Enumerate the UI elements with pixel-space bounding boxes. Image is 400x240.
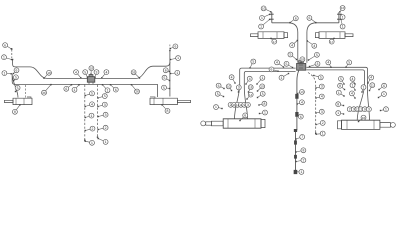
svg-text:2: 2 <box>105 126 107 130</box>
svg-text:1: 1 <box>352 83 354 87</box>
svg-text:6: 6 <box>218 84 220 88</box>
svg-text:6: 6 <box>16 69 18 73</box>
svg-text:18: 18 <box>249 85 253 89</box>
svg-text:4: 4 <box>276 61 278 65</box>
svg-text:5: 5 <box>84 70 86 74</box>
svg-text:6: 6 <box>115 88 117 92</box>
svg-text:14: 14 <box>249 93 253 97</box>
svg-text:5: 5 <box>340 77 342 81</box>
svg-text:8: 8 <box>337 102 339 106</box>
svg-text:7: 7 <box>301 135 303 139</box>
svg-text:1: 1 <box>105 140 107 144</box>
svg-text:4: 4 <box>370 76 372 80</box>
svg-text:10: 10 <box>262 7 266 11</box>
svg-text:1: 1 <box>91 114 93 118</box>
svg-text:3: 3 <box>238 86 240 90</box>
svg-text:10: 10 <box>261 85 265 89</box>
svg-text:1: 1 <box>337 111 339 115</box>
svg-text:9: 9 <box>364 107 366 111</box>
svg-text:9: 9 <box>243 103 245 107</box>
svg-text:3: 3 <box>105 113 107 117</box>
svg-text:5: 5 <box>252 60 254 64</box>
svg-text:5: 5 <box>217 92 219 96</box>
svg-text:1: 1 <box>300 170 302 174</box>
svg-text:26: 26 <box>132 71 136 75</box>
svg-text:1: 1 <box>322 132 324 136</box>
svg-text:5: 5 <box>164 76 166 80</box>
svg-text:3: 3 <box>321 110 323 114</box>
svg-text:5: 5 <box>15 76 17 80</box>
svg-text:4: 4 <box>91 103 93 107</box>
svg-text:13: 13 <box>300 90 304 94</box>
svg-text:5: 5 <box>320 76 322 80</box>
svg-text:1: 1 <box>260 25 262 29</box>
svg-text:2: 2 <box>92 127 94 131</box>
svg-text:5: 5 <box>91 92 93 96</box>
svg-text:4: 4 <box>231 75 233 79</box>
svg-text:5: 5 <box>348 61 350 65</box>
svg-text:6: 6 <box>295 17 297 21</box>
svg-text:5: 5 <box>104 94 106 98</box>
svg-text:6: 6 <box>383 84 385 88</box>
svg-text:2: 2 <box>322 121 324 125</box>
svg-text:6: 6 <box>300 115 302 119</box>
svg-text:4: 4 <box>313 44 315 48</box>
svg-text:1: 1 <box>261 16 263 20</box>
svg-text:6: 6 <box>271 68 273 72</box>
svg-text:4: 4 <box>351 92 353 96</box>
svg-text:11: 11 <box>371 83 374 87</box>
svg-text:10: 10 <box>341 6 345 10</box>
svg-text:4: 4 <box>291 43 293 47</box>
svg-text:6: 6 <box>65 87 67 91</box>
svg-text:18: 18 <box>301 58 305 62</box>
svg-text:1: 1 <box>264 111 266 115</box>
svg-text:4: 4 <box>321 95 323 99</box>
svg-text:6: 6 <box>4 43 6 47</box>
svg-text:6: 6 <box>308 16 310 20</box>
svg-text:8: 8 <box>167 109 169 113</box>
svg-text:5: 5 <box>316 53 318 57</box>
svg-text:1: 1 <box>385 107 387 111</box>
svg-text:3: 3 <box>353 107 355 111</box>
svg-text:3: 3 <box>96 70 98 74</box>
svg-text:1: 1 <box>74 88 76 92</box>
svg-text:1: 1 <box>338 91 340 95</box>
svg-text:4: 4 <box>327 61 329 65</box>
svg-text:17: 17 <box>273 40 277 44</box>
svg-text:18: 18 <box>47 71 51 75</box>
svg-text:1: 1 <box>383 92 385 96</box>
svg-text:1: 1 <box>342 15 344 19</box>
svg-text:8: 8 <box>14 110 16 114</box>
svg-text:1: 1 <box>107 89 109 93</box>
svg-text:4: 4 <box>352 77 354 81</box>
svg-text:4: 4 <box>301 101 303 105</box>
svg-text:18: 18 <box>90 66 94 70</box>
svg-text:5: 5 <box>289 53 291 57</box>
svg-text:3: 3 <box>368 107 370 111</box>
svg-text:2: 2 <box>302 158 304 162</box>
svg-text:1: 1 <box>91 141 93 145</box>
svg-text:6: 6 <box>244 114 246 118</box>
svg-text:3: 3 <box>247 103 249 107</box>
svg-text:26: 26 <box>135 90 139 94</box>
svg-text:3: 3 <box>317 62 319 66</box>
svg-text:8: 8 <box>339 84 341 88</box>
svg-text:1: 1 <box>215 105 217 109</box>
svg-text:4: 4 <box>105 70 107 74</box>
svg-text:8: 8 <box>263 102 265 106</box>
svg-text:17: 17 <box>330 40 334 44</box>
svg-text:3: 3 <box>321 85 323 89</box>
svg-text:10: 10 <box>227 85 231 89</box>
svg-text:2: 2 <box>349 107 351 111</box>
svg-text:1: 1 <box>176 71 178 75</box>
svg-text:8: 8 <box>302 149 304 153</box>
svg-text:5: 5 <box>286 62 288 66</box>
svg-text:5: 5 <box>163 86 165 90</box>
svg-text:4: 4 <box>249 77 251 81</box>
svg-text:2: 2 <box>230 103 232 107</box>
svg-text:6: 6 <box>174 45 176 49</box>
svg-text:3: 3 <box>104 103 106 107</box>
svg-text:1: 1 <box>3 55 5 59</box>
svg-text:1: 1 <box>261 76 263 80</box>
svg-text:6: 6 <box>165 69 167 73</box>
svg-text:26: 26 <box>42 91 46 95</box>
svg-text:1: 1 <box>363 85 365 89</box>
svg-text:1: 1 <box>342 25 344 29</box>
svg-text:1: 1 <box>177 56 179 60</box>
svg-text:5: 5 <box>262 92 264 96</box>
svg-text:10: 10 <box>362 116 366 120</box>
svg-text:4: 4 <box>75 70 77 74</box>
svg-text:5: 5 <box>17 86 19 90</box>
svg-text:1: 1 <box>281 76 283 80</box>
svg-text:1: 1 <box>3 71 5 75</box>
